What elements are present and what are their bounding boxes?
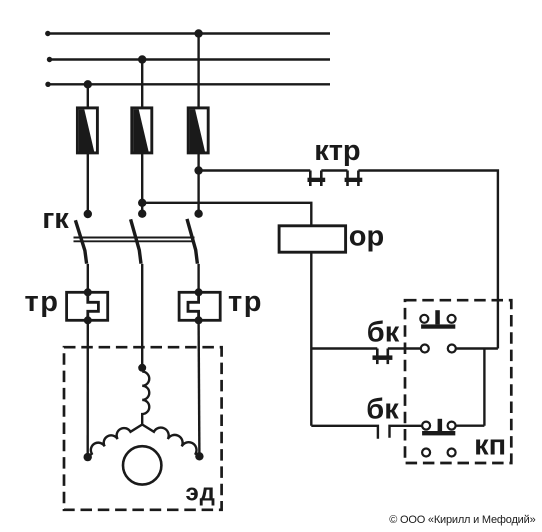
wire phase3 TP2 to motor <box>197 320 200 456</box>
pushbutton box кп dashed <box>405 300 511 463</box>
thermal element тр phase1 <box>67 288 108 324</box>
node junction phase3 to ktr branch <box>194 166 202 174</box>
node junction phase1-L3 <box>84 80 92 88</box>
svg-text:бк: бк <box>367 317 400 349</box>
node contact top phase3 <box>194 210 202 218</box>
node junction phase2 to or branch <box>138 199 146 207</box>
rotor circle <box>123 446 161 484</box>
switch гк blade phase3 <box>187 219 197 264</box>
node motor middle terminal <box>138 364 146 372</box>
contact ктр 1 <box>308 171 326 187</box>
fuse phase3 <box>188 108 208 153</box>
node terminal L1 <box>45 31 50 36</box>
fuse phase1 <box>77 108 97 153</box>
wire bus line L2 <box>50 58 331 60</box>
wire bk1 to button row1 <box>388 347 421 349</box>
wire phase3 drop to fuse <box>197 34 199 109</box>
node motor left terminal <box>84 453 92 461</box>
wire phase2 blade to motor <box>141 264 143 368</box>
node junction phase3-L1 <box>194 29 202 37</box>
wire phase3 fuse to contact <box>197 153 199 214</box>
fuse phase2 <box>132 108 152 153</box>
pushbutton stop symbol <box>420 310 455 328</box>
svg-text:ор: ор <box>349 221 384 253</box>
wire bus line L1 <box>48 32 330 34</box>
wire phase2 drop to fuse <box>141 60 143 109</box>
switch гк blade phase1 <box>75 220 86 263</box>
svg-text:кп: кп <box>474 430 506 462</box>
contact row stop button <box>421 345 498 353</box>
motor dashed box ЭД <box>64 347 222 510</box>
svg-text:эд: эд <box>186 479 217 506</box>
wire phase3 blade to TP2 <box>197 264 199 292</box>
winding middle (stator) <box>142 372 149 425</box>
svg-text:© ООО «Кирилл и Мефодий»: © ООО «Кирилл и Мефодий» <box>389 514 535 526</box>
winding right (stator) <box>142 425 199 457</box>
wire branch to bk1 <box>311 347 377 349</box>
terminal circles start button <box>422 449 456 457</box>
wire branch down right <box>483 349 485 426</box>
wire bus line L3 <box>48 83 330 85</box>
wire or coil down <box>310 252 312 426</box>
relay coil ор <box>279 226 346 252</box>
svg-text:бк: бк <box>366 394 399 426</box>
thermal element тр phase3 <box>179 288 220 324</box>
contact бк 2 <box>311 426 422 439</box>
wire phase2 branch to or coil <box>142 203 311 226</box>
node motor right terminal <box>195 452 203 460</box>
wire phase1 drop to fuse <box>87 84 89 108</box>
node terminal L3 <box>45 82 50 87</box>
node junction phase2-L2 <box>138 55 146 63</box>
contact бк 1 <box>373 349 393 365</box>
wire phase3 to ktr contacts <box>199 169 311 171</box>
contact ктр 2 <box>345 171 363 187</box>
switch гк blade phase2 <box>131 219 141 263</box>
svg-text:тр: тр <box>25 286 60 318</box>
svg-text:ктр: ктр <box>314 135 360 167</box>
wire phase1 blade to TP1 <box>87 264 89 292</box>
wire phase1 fuse to contact <box>87 153 89 214</box>
winding left (stator) <box>88 425 143 458</box>
wire to start button right <box>456 425 485 427</box>
wire phase1 TP1 to motor <box>86 320 89 457</box>
svg-text:тр: тр <box>228 286 263 318</box>
node terminal L2 <box>47 57 52 62</box>
switch гк linkage bar <box>74 237 195 239</box>
wire ktr to right drop <box>358 171 498 349</box>
node contact top phase2 <box>138 210 146 218</box>
svg-text:гк: гк <box>42 203 69 235</box>
wire between ktr contacts <box>321 169 347 171</box>
pushbutton start symbol <box>422 419 456 436</box>
wire phase2 fuse to contact <box>141 153 143 214</box>
node contact top phase1 <box>84 210 92 218</box>
